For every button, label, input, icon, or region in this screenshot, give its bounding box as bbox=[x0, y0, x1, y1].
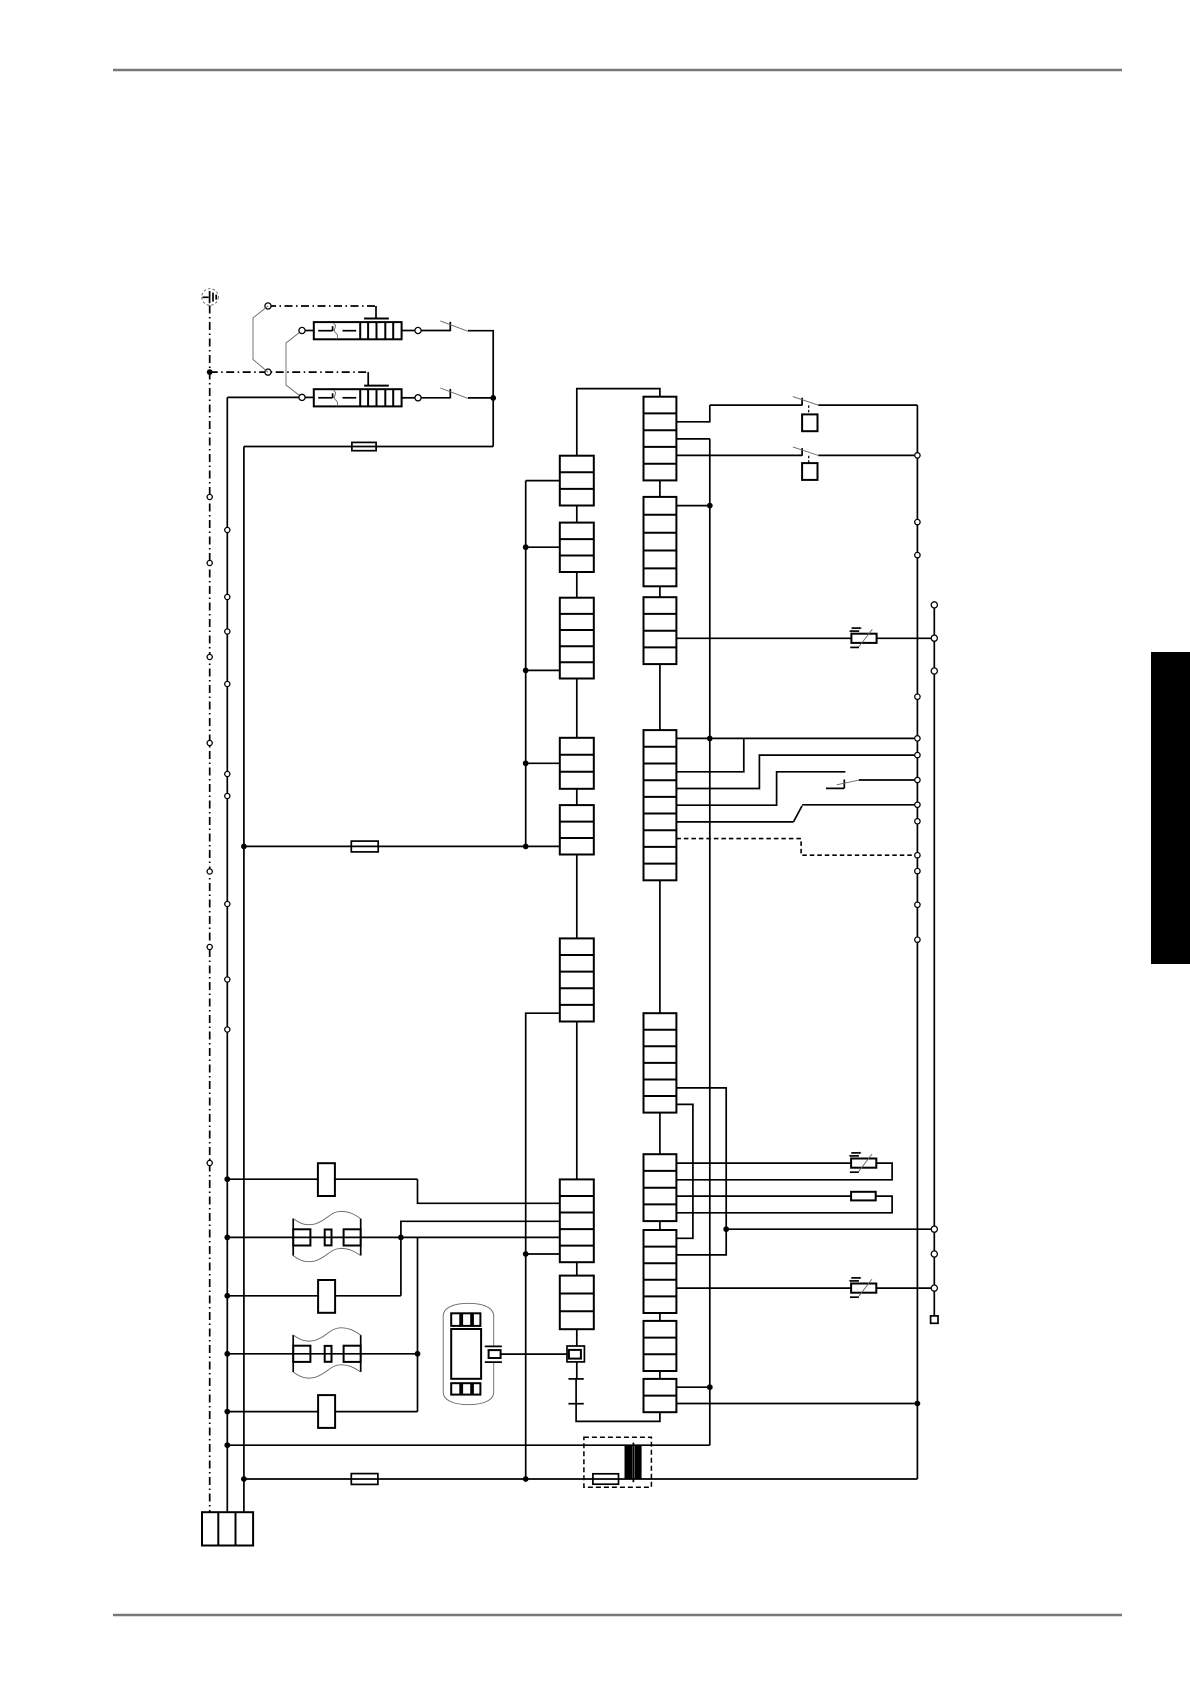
wire bbox=[398, 1221, 560, 1296]
connector block bbox=[560, 523, 594, 572]
node bbox=[241, 844, 247, 850]
wire bbox=[421, 397, 450, 399]
limit switch S1 bbox=[440, 321, 468, 331]
sensor R2 (NTC) bbox=[849, 1152, 877, 1173]
wire left bus lower bbox=[526, 1013, 560, 1479]
coil K2 bbox=[802, 456, 817, 480]
wire L-feed bbox=[226, 397, 228, 1512]
wire bbox=[305, 330, 314, 332]
wire bbox=[676, 405, 709, 422]
break point bbox=[225, 629, 230, 634]
plug link bbox=[286, 331, 302, 398]
wire bbox=[402, 330, 415, 332]
wire bbox=[676, 1287, 851, 1289]
relay contact bbox=[826, 780, 914, 789]
connector block bbox=[560, 1179, 594, 1262]
wire bbox=[676, 1195, 851, 1197]
node bbox=[523, 760, 560, 766]
break point bbox=[225, 681, 230, 686]
plug contact bbox=[265, 303, 271, 309]
wire bbox=[676, 1403, 917, 1405]
PE break point bbox=[207, 560, 212, 565]
connector block bbox=[560, 1276, 594, 1330]
wire bbox=[576, 1404, 660, 1422]
terminal bbox=[415, 395, 421, 401]
wire bbox=[501, 1353, 567, 1355]
relay coil K5 bbox=[318, 1395, 335, 1428]
wire bbox=[576, 506, 578, 1276]
fuse F1 bbox=[244, 442, 493, 450]
controller connector bbox=[644, 1013, 677, 1112]
break point bbox=[915, 552, 920, 557]
node bbox=[915, 1401, 921, 1407]
node bbox=[490, 395, 496, 401]
wire bus bbox=[709, 439, 711, 1445]
break point bbox=[915, 802, 920, 807]
terminal bbox=[415, 327, 421, 333]
wire bbox=[676, 772, 845, 805]
wire bbox=[676, 1104, 693, 1238]
node bbox=[723, 1226, 931, 1232]
wire bbox=[676, 1196, 892, 1213]
controller connector bbox=[644, 397, 677, 481]
node bbox=[523, 844, 529, 850]
controller connector bbox=[644, 1321, 677, 1371]
wire bbox=[224, 1176, 559, 1203]
plug contact bbox=[931, 668, 937, 674]
pump plug M2 bbox=[293, 1328, 361, 1378]
wire bbox=[224, 1409, 417, 1415]
coding resistor bbox=[851, 1192, 876, 1201]
controller connector bbox=[644, 497, 677, 586]
transformer windings bbox=[625, 1443, 642, 1483]
node bbox=[523, 1251, 560, 1257]
wire to control board bbox=[577, 389, 660, 456]
break point bbox=[915, 853, 920, 858]
wire bbox=[676, 438, 710, 440]
wire bbox=[676, 738, 743, 771]
heater element E2 bbox=[314, 386, 402, 407]
node bbox=[523, 668, 560, 674]
break point bbox=[225, 771, 230, 776]
plug contact bbox=[931, 1226, 937, 1232]
plug contact bbox=[265, 369, 271, 375]
break point bbox=[915, 902, 920, 907]
side tab marker bbox=[1151, 652, 1190, 964]
PE break point bbox=[207, 654, 212, 659]
node bbox=[523, 1476, 529, 1482]
wire bbox=[402, 397, 415, 399]
break point bbox=[225, 594, 230, 599]
wire bbox=[676, 637, 851, 639]
connector block bbox=[560, 738, 594, 789]
wire bbox=[224, 1442, 709, 1448]
limit switch S2 bbox=[440, 388, 468, 398]
transformer T1 boundary bbox=[584, 1437, 652, 1487]
bottom rule bbox=[113, 1614, 1122, 1617]
wire bbox=[576, 1362, 578, 1379]
controller connector bbox=[644, 597, 677, 664]
wire bbox=[421, 330, 450, 332]
plug contact bbox=[931, 602, 937, 608]
connector block bbox=[560, 938, 594, 1021]
controller connector bbox=[644, 1154, 677, 1221]
wire fused feed bbox=[243, 447, 245, 1513]
wire shielded option bbox=[676, 839, 914, 856]
wire left bus upper bbox=[525, 481, 527, 847]
wire bbox=[877, 637, 932, 639]
break point bbox=[915, 519, 920, 524]
wire right bus bbox=[916, 405, 918, 1479]
plug contact bbox=[931, 1251, 937, 1257]
fuse F4 bbox=[593, 1474, 918, 1484]
contactor contact K1 bbox=[710, 397, 918, 406]
break point bbox=[915, 752, 920, 757]
fuse F3 bbox=[241, 1474, 593, 1485]
relay contact bbox=[676, 805, 914, 822]
controller connector bbox=[644, 1379, 677, 1412]
break point bbox=[915, 694, 920, 699]
controller connector bbox=[644, 730, 677, 880]
relay coil K4 bbox=[318, 1280, 335, 1313]
wire bbox=[659, 480, 661, 1379]
wire bbox=[676, 1386, 709, 1388]
wire bbox=[305, 396, 314, 398]
break point bbox=[225, 1027, 230, 1032]
plug link bbox=[253, 306, 268, 372]
wire bbox=[676, 755, 914, 788]
top rule bbox=[113, 69, 1122, 72]
node bbox=[707, 1384, 713, 1390]
terminal bbox=[299, 394, 305, 400]
sensor R3 (NTC) bbox=[849, 1277, 877, 1298]
wire sensor line bbox=[933, 605, 935, 1316]
wire dash-dot to limiter 1 bbox=[268, 306, 376, 319]
PE break point bbox=[207, 1160, 212, 1165]
PE break point bbox=[207, 944, 212, 949]
connector block bbox=[560, 598, 594, 679]
PE conductor bbox=[209, 306, 211, 1513]
break point bbox=[915, 777, 920, 782]
wire bbox=[468, 331, 493, 447]
wire bbox=[468, 397, 493, 399]
node bbox=[676, 503, 712, 509]
PE break point bbox=[207, 494, 212, 499]
connector block bbox=[560, 805, 594, 854]
break point bbox=[915, 736, 920, 741]
wire bbox=[526, 480, 560, 482]
fuse F2 bbox=[244, 841, 560, 852]
break point bbox=[915, 453, 920, 458]
plug contact bbox=[931, 635, 937, 641]
terminal bbox=[299, 327, 305, 333]
wire dash-dot to limiter 2 bbox=[210, 372, 369, 386]
heater element E1 bbox=[314, 319, 402, 340]
compressor M3 bbox=[443, 1303, 502, 1404]
plug contact bbox=[931, 1285, 937, 1291]
controller connector bbox=[644, 1230, 677, 1313]
node PE bbox=[207, 369, 213, 375]
wire bbox=[676, 1162, 851, 1164]
wire bbox=[676, 1229, 726, 1255]
break point bbox=[225, 527, 230, 532]
wire pump M1 feed bbox=[224, 1235, 559, 1241]
wire bbox=[676, 1163, 892, 1180]
wire bbox=[224, 1293, 400, 1299]
sensor R1 (NTC) bbox=[849, 627, 877, 648]
break point bbox=[915, 937, 920, 942]
pump plug M1 bbox=[293, 1211, 361, 1261]
break point bbox=[225, 793, 230, 798]
node bbox=[707, 736, 713, 742]
wire pump M2 feed bbox=[224, 1351, 417, 1357]
PE break point bbox=[207, 740, 212, 745]
break point bbox=[225, 901, 230, 906]
break point bbox=[915, 868, 920, 873]
relay coil K3 bbox=[318, 1163, 335, 1196]
wire bbox=[676, 737, 914, 739]
contactor contact K2 bbox=[676, 447, 914, 456]
terminal block X1 bbox=[202, 1512, 253, 1545]
wire bbox=[676, 1088, 726, 1229]
wire bbox=[415, 1237, 421, 1411]
wire bbox=[876, 1287, 931, 1289]
PE break point bbox=[207, 869, 212, 874]
break point bbox=[225, 977, 230, 982]
earth symbol bbox=[202, 289, 219, 306]
wire bbox=[227, 396, 298, 398]
crystal link bbox=[568, 1379, 583, 1404]
break point bbox=[915, 819, 920, 824]
coil K1 bbox=[802, 405, 817, 431]
plug connector bbox=[567, 1346, 584, 1362]
node bbox=[523, 544, 560, 550]
connector block bbox=[560, 456, 594, 506]
wire bbox=[576, 1329, 578, 1346]
terminal lug bbox=[931, 1316, 938, 1323]
